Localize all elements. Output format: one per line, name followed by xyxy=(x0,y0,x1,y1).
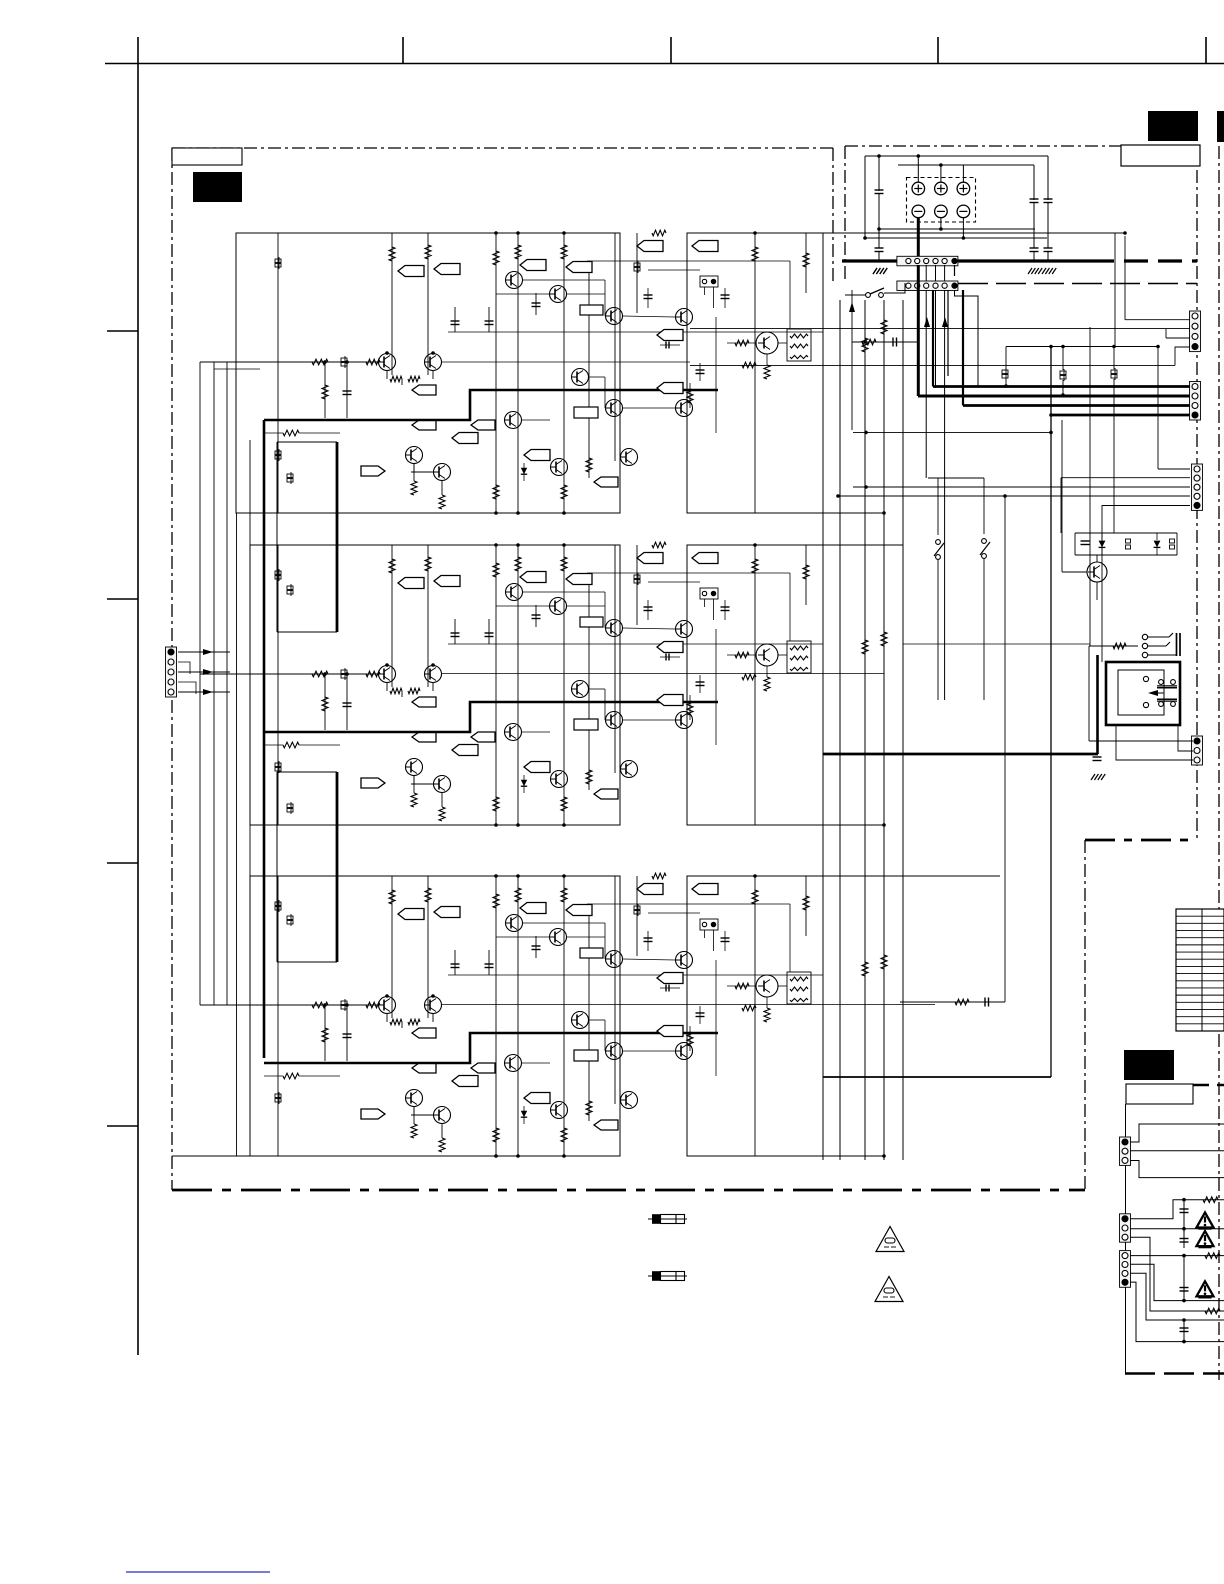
psu junction dots xyxy=(877,227,881,231)
bias connector CN2 xyxy=(700,588,718,599)
feedback tap wire ch1 xyxy=(264,432,283,434)
wire column x428 ch2 xyxy=(427,545,429,687)
ac connector CN E xyxy=(1120,1137,1131,1165)
part flag F108 xyxy=(452,433,478,444)
thin wire to CB C4 xyxy=(838,495,1190,497)
mid horizontal link ch1 xyxy=(648,269,700,271)
label box under black box 2 xyxy=(1121,145,1200,166)
cascode link cap ch3 xyxy=(660,987,680,989)
feedback tap wire ch2 xyxy=(264,744,283,746)
resistor R313 xyxy=(493,1128,499,1142)
wire stage link d ch2 xyxy=(623,628,675,629)
feed-through on feedback box c xyxy=(287,804,293,808)
long vertical x250 xyxy=(249,440,251,876)
transistor Q201 xyxy=(379,666,396,683)
psu cap C1 lead xyxy=(878,156,880,191)
switch feed wire xyxy=(928,477,984,479)
psu cap C3 lead xyxy=(1033,203,1035,249)
ch3 bottom rail to border xyxy=(172,1155,250,1157)
wire column x615 ch2 xyxy=(614,545,616,773)
value label box b ch1 xyxy=(580,305,603,315)
wire link g ch1 xyxy=(522,419,550,421)
part flag F210 xyxy=(412,732,436,742)
cap C205 xyxy=(699,675,701,693)
main block border top xyxy=(172,147,833,149)
main block border left xyxy=(171,148,173,1190)
ac resistor Rx1 xyxy=(1203,1197,1218,1203)
fuse symbol legend 2 xyxy=(648,1275,687,1277)
transistor Q314 xyxy=(621,1092,638,1109)
upper link wire ch2 xyxy=(587,572,790,574)
part flag F206 xyxy=(692,553,718,564)
part flag F101 xyxy=(398,266,424,277)
mid horizontal link ch3 xyxy=(648,912,700,914)
wire base feed xyxy=(1062,571,1087,573)
input arrow 2 xyxy=(178,671,230,673)
feedback tap wire ch3 xyxy=(264,1075,283,1077)
ac cap Cx4 xyxy=(1183,1320,1185,1342)
value label box b ch3 xyxy=(580,948,603,958)
bus stub below ft b xyxy=(1062,380,1064,395)
bottom rail extension ch1 xyxy=(823,512,884,514)
channel 2 outline box left xyxy=(250,545,620,825)
speaker return bottom wire xyxy=(823,1076,1051,1078)
wire driver out ch2 xyxy=(778,654,787,656)
psu cap C4 lead xyxy=(1047,203,1049,249)
resistor R109 xyxy=(366,359,380,365)
wire bus drop to CB C pin1 xyxy=(1157,347,1159,470)
small res near driver R117 xyxy=(742,362,756,368)
transistor Q111 xyxy=(676,400,693,417)
input arrow 3 xyxy=(178,691,230,693)
transistor Q308 xyxy=(676,952,693,969)
feed-through on x637 ch2 xyxy=(634,575,640,579)
resistor R116 xyxy=(689,383,691,408)
diode D201 xyxy=(523,775,525,793)
ac cap Cx2 xyxy=(1183,1229,1185,1248)
cap C201 xyxy=(454,619,456,644)
wire column x755 ch3 xyxy=(754,876,756,1156)
feed-through on x637 ch3 xyxy=(634,906,640,910)
arrow up b xyxy=(924,317,930,327)
ac block black box PCB-3 xyxy=(1124,1050,1174,1080)
wire tap6 down xyxy=(962,218,964,238)
resistor R104 xyxy=(515,245,521,259)
ground under C5 xyxy=(1028,268,1032,274)
amp top border right segment y283 xyxy=(958,283,1197,285)
junction dots ch2 xyxy=(494,543,498,547)
psu connector CB101 row1 xyxy=(897,256,958,266)
part flag F201 xyxy=(398,578,424,589)
CN G wires xyxy=(1130,1255,1224,1257)
junction dots ch1 xyxy=(494,231,498,235)
wire column x518 ch3 xyxy=(517,876,519,1156)
cascode link cap ch2 xyxy=(660,656,680,658)
psu C5 ground lead xyxy=(1033,252,1035,262)
transistor Q109 xyxy=(572,369,589,386)
cap C106 xyxy=(724,288,726,308)
part flag F303 xyxy=(520,903,546,914)
rail resistor R218 xyxy=(652,542,666,548)
small res near driver R217 xyxy=(742,674,756,680)
bottom rail extension ch3 xyxy=(823,1155,884,1157)
wire column x564 ch1 xyxy=(563,233,565,513)
wire rail x926 down xyxy=(925,265,927,281)
part flag F113 xyxy=(594,477,618,487)
psu second bus wire xyxy=(898,164,1034,166)
supply rail x903 xyxy=(902,300,904,1160)
wire V+ column x392 ch3 xyxy=(391,876,393,1018)
wire V+ column x392 ch2 xyxy=(391,545,393,687)
psu left rail wire xyxy=(864,156,866,238)
transistor Q113 xyxy=(551,459,568,476)
wire column x755 ch2 xyxy=(754,545,756,825)
resistor R312 xyxy=(586,1101,592,1115)
wire column x806 ch3 xyxy=(805,876,807,936)
bias connector CN1 xyxy=(700,276,718,287)
wire column x755 ch1 xyxy=(754,233,756,513)
transistor Q305 xyxy=(506,915,523,932)
diode D101 xyxy=(523,463,525,481)
transformer tap + terminal T2 xyxy=(935,182,948,195)
rail resistor ch1 b xyxy=(881,320,887,334)
part flag F306 xyxy=(692,884,718,895)
wire column x428 ch1 xyxy=(427,233,429,375)
wire y432 to return vertical xyxy=(853,431,1051,433)
rail resistor R118 xyxy=(652,230,666,236)
resistor R206 xyxy=(752,559,758,573)
thick output ch2 to relay xyxy=(823,753,1098,756)
transistor Q211 xyxy=(676,712,693,729)
warning triangle W1 xyxy=(1197,1213,1214,1228)
ac block label box xyxy=(1126,1084,1193,1104)
transistor Q214 xyxy=(621,761,638,778)
ferrite bead FB2 xyxy=(341,670,347,674)
resistor R214 xyxy=(561,797,567,811)
transistor Q112 xyxy=(505,412,522,429)
resistor R304 xyxy=(515,888,521,902)
part flag F311 xyxy=(471,1063,495,1073)
main border right x1197 xyxy=(1196,146,1198,840)
part flag F216 xyxy=(657,695,683,706)
relay contact b xyxy=(1159,702,1164,707)
wire stage link c ch1 xyxy=(567,293,605,295)
input line ch2 xyxy=(200,673,384,675)
connector CB B xyxy=(1190,382,1201,421)
transistor Q101 xyxy=(379,354,396,371)
emitter resistor R115 xyxy=(766,354,768,365)
resistor R102 xyxy=(425,245,431,259)
resistor R101 xyxy=(389,247,395,261)
zobel ch1 xyxy=(852,341,917,343)
distribution bus top right xyxy=(1006,346,1158,348)
wire link f ch3 xyxy=(623,1050,675,1052)
cap C302 xyxy=(488,950,490,975)
ac cap Cx1 xyxy=(1183,1200,1185,1229)
ch2 sense line xyxy=(441,673,884,675)
wire stage link d ch1 xyxy=(623,316,675,317)
feed-through x1063 xyxy=(1060,371,1066,375)
thick wire to CB B4 xyxy=(1051,414,1193,417)
wire rail x935 down xyxy=(935,265,937,281)
wire column x637 ch2 xyxy=(636,545,638,625)
resistor R301 xyxy=(389,890,395,904)
psu top bus wire xyxy=(865,155,1048,157)
emitter resistor R215 xyxy=(766,666,768,677)
cap C102 xyxy=(488,307,490,332)
wire rail x954 down xyxy=(954,265,956,276)
resistor R310 xyxy=(413,1107,415,1124)
title black box top right PCB-2 xyxy=(1148,111,1198,141)
wire stage link a ch2 xyxy=(523,591,605,593)
transistor Q312 xyxy=(505,1055,522,1072)
feed-through x1005 xyxy=(1002,370,1008,374)
cap C304 xyxy=(647,931,649,951)
part flag F116 xyxy=(657,383,683,394)
thick wire -B rail down xyxy=(917,265,920,396)
cap C306 xyxy=(724,931,726,951)
transistor Q105 xyxy=(506,272,523,289)
wire column x518 ch2 xyxy=(517,545,519,825)
transistor Q106 xyxy=(550,286,567,303)
psu C6 ground lead xyxy=(1047,252,1049,262)
protection zener Z1 xyxy=(1126,539,1131,543)
resistor R108 input xyxy=(312,359,328,365)
cap C101 xyxy=(454,307,456,332)
part flag F215 xyxy=(657,642,683,653)
resistor pair box ch2 xyxy=(787,641,811,673)
transistor Q115 driver xyxy=(756,332,778,354)
part flag F110 xyxy=(412,420,436,430)
psu cap C1 lower lead xyxy=(878,194,880,249)
transistor Q212 xyxy=(505,724,522,741)
wire column x806 ch1 xyxy=(805,233,807,293)
main block border top notch box xyxy=(172,148,242,165)
part flag F105 xyxy=(637,241,663,252)
resistor R303 xyxy=(493,894,499,908)
thick feedback wire ch1 xyxy=(264,390,718,420)
relay coil pins xyxy=(1143,676,1148,681)
part flag F312 xyxy=(524,1093,550,1104)
resistor R316 xyxy=(689,1026,691,1051)
input line ch1 xyxy=(200,361,384,363)
input connector stub wires xyxy=(178,662,190,674)
part flag F204 xyxy=(566,574,592,585)
wire right box inner b ch2 xyxy=(789,573,791,641)
feedback box ch2 (thick right edge) xyxy=(276,442,278,632)
channel 2 top rail extension xyxy=(823,544,903,546)
transistor Q210 xyxy=(606,712,623,729)
resistor R309 xyxy=(366,1002,380,1008)
wire column x496 ch1 xyxy=(495,233,497,513)
warning triangle W2 xyxy=(1197,1231,1214,1246)
wire tap5 down xyxy=(940,218,942,229)
feedback resistor ch3 xyxy=(283,1073,299,1079)
headphone jack xyxy=(1089,645,1138,647)
resistor R112 xyxy=(586,458,592,472)
feedback box ch3 (thick right edge) xyxy=(276,772,278,962)
value label box ch1 xyxy=(574,407,598,418)
transistor Q208 xyxy=(676,621,693,638)
protection feed vertical x1114 xyxy=(1113,379,1115,533)
emitter resistor R315 xyxy=(766,997,768,1008)
input line ch3 xyxy=(200,1004,384,1006)
input arrow 1 xyxy=(178,651,230,653)
wire column x564 ch2 xyxy=(563,545,565,825)
wire stage link a ch3 xyxy=(523,922,605,924)
main border step y840 xyxy=(1085,839,1197,842)
cap C206 xyxy=(724,600,726,620)
smoothing cap C2 xyxy=(875,247,884,249)
wire column x589 ch1 xyxy=(588,263,590,478)
feedback resistor ch1 xyxy=(283,430,299,436)
diff emitter resistors ch2 xyxy=(386,683,388,691)
psu dashed box around transformer terminals xyxy=(907,178,976,223)
resistor R216 xyxy=(689,695,691,720)
input bus wires from connector xyxy=(199,362,201,1005)
part flag F302 xyxy=(434,907,460,918)
smoothing cap C1 xyxy=(875,189,884,191)
wire jog filled pin row2 xyxy=(955,290,979,386)
ac connector CN G xyxy=(1120,1251,1131,1288)
relay RY1 outer box xyxy=(1106,662,1180,725)
transistor Q108 xyxy=(676,309,693,326)
part flag F104 xyxy=(566,262,592,273)
wire mid rail ch1 xyxy=(448,331,823,333)
part flag F202 xyxy=(434,576,460,587)
wire column x496 ch3 xyxy=(495,876,497,1156)
part flag F211 xyxy=(471,732,495,742)
transistor Q307 xyxy=(606,951,623,968)
rail resistor ch2 a xyxy=(862,640,868,654)
cap C204 xyxy=(647,600,649,620)
wire stage link b ch2 xyxy=(496,605,549,607)
psu right vertical 1 xyxy=(1033,165,1035,200)
relay inner box xyxy=(1118,670,1164,715)
wire stage link d ch3 xyxy=(623,959,675,960)
value label box b ch2 xyxy=(580,617,603,627)
resistor R205 xyxy=(561,557,567,571)
wire column x518 ch1 xyxy=(517,233,519,513)
part flag F315 xyxy=(657,973,683,984)
parts table grid xyxy=(1176,909,1224,1031)
ch2 line to jack xyxy=(903,643,1090,645)
wire input ch3 taps xyxy=(200,1004,312,1006)
wire column x589 ch2 xyxy=(588,575,590,790)
part flag F109 xyxy=(412,385,436,395)
transistor Q311 xyxy=(676,1043,693,1060)
thick wire to CB B1 xyxy=(933,385,1193,388)
cap C203 xyxy=(535,605,537,627)
wire column x637 ch3 xyxy=(636,876,638,956)
wire driver out ch1 xyxy=(778,342,787,344)
vertical return x1051 xyxy=(1050,347,1052,1078)
part flag F309 xyxy=(412,1028,436,1038)
wire tap3 to bus xyxy=(962,165,964,182)
frame tick x1206 xyxy=(1205,37,1207,64)
bias connector CN3 xyxy=(700,919,718,930)
resistor R311 xyxy=(441,1124,443,1138)
psu cap C4 xyxy=(1044,198,1053,200)
CN E stepped wires xyxy=(1130,1124,1224,1142)
wire V+ column x392 ch1 xyxy=(391,233,393,375)
ac connector CN F xyxy=(1120,1214,1131,1242)
footer link line xyxy=(126,1571,270,1573)
bottom rail extension ch2 xyxy=(823,824,884,826)
psu block border left xyxy=(844,146,846,283)
feed-through ft201 xyxy=(275,571,281,575)
psu cap C2 to ground lead xyxy=(878,252,880,262)
feed-through ft302 xyxy=(275,1094,281,1098)
resistor pair box ch3 xyxy=(787,972,811,1004)
rail resistor ch3 a xyxy=(862,962,868,976)
transistor Q102 xyxy=(425,354,442,371)
rail resistor ch3 b xyxy=(881,955,887,969)
part flag F115 xyxy=(657,330,683,341)
resistor R203 xyxy=(493,563,499,577)
fuse symbol legend 1 xyxy=(648,1218,687,1220)
wire right box inner a ch1 xyxy=(715,317,717,433)
resistor R103 xyxy=(493,251,499,265)
transistor Q213 xyxy=(551,771,568,788)
channel 1 outline box right xyxy=(687,233,823,513)
part flag F209 xyxy=(412,697,436,707)
transformer tap - terminal T4 xyxy=(912,205,925,218)
resistor R212 xyxy=(586,770,592,784)
frame tick y331 xyxy=(107,330,138,332)
protection network box xyxy=(1075,532,1177,534)
ac resistor Rx3 xyxy=(1205,1308,1220,1314)
diff emitter resistors ch3 xyxy=(386,1014,388,1022)
transistor Q310 xyxy=(606,1043,623,1060)
psu lower bus B xyxy=(865,237,1047,239)
wire mid rail ch3 xyxy=(448,974,823,976)
resistor R314 xyxy=(561,1128,567,1142)
warning triangle W3 xyxy=(1197,1281,1214,1296)
wire stage link c ch2 xyxy=(567,605,605,607)
wire input ch1 taps xyxy=(200,361,312,363)
protection transistor Q-P1 xyxy=(1087,562,1107,582)
resistor R111 xyxy=(441,481,443,495)
wire column x428 ch3 xyxy=(427,876,429,1018)
channel 2 left inner vertical x278 xyxy=(277,545,279,825)
cap C103 xyxy=(535,293,537,315)
part flag F205 xyxy=(637,553,663,564)
wire stage link b ch3 xyxy=(496,936,549,938)
wire column x496 ch2 xyxy=(495,545,497,825)
diff emitter resistors ch1 xyxy=(386,371,388,379)
transistor Q114 xyxy=(621,449,638,466)
thick wire to CB B3 xyxy=(963,404,1193,407)
wire column x615 ch3 xyxy=(614,876,616,1104)
main border right lower x1085 xyxy=(1084,840,1086,1190)
resistor R114 xyxy=(561,485,567,499)
wire mirror ch2 xyxy=(413,776,415,784)
transistor Q215 driver xyxy=(756,644,778,666)
frame tick x403 xyxy=(402,37,404,64)
wire link g ch2 xyxy=(522,731,550,733)
wire tap1 to bus xyxy=(917,156,919,182)
page frame left rule xyxy=(137,37,139,1355)
supply rail x823 xyxy=(822,300,824,1160)
speaker switch SW B xyxy=(982,539,987,544)
resistor R110 xyxy=(413,464,415,481)
zobel ch3 xyxy=(900,1001,1005,1003)
value label box ch3 xyxy=(574,1050,598,1061)
feed-through ft202 xyxy=(275,763,281,767)
ac cap Cx3 xyxy=(1183,1279,1185,1301)
wire driver base ch2 xyxy=(727,654,756,656)
